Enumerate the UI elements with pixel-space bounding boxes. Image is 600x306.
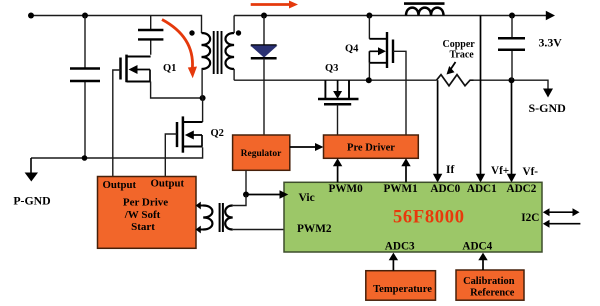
- node junction Vf- cap: [509, 77, 515, 83]
- wire ADC4 arrow: [478, 253, 487, 270]
- node junction diode top: [261, 13, 267, 19]
- capacitor C2 snubber: [138, 16, 163, 55]
- svg-text:56F8000: 56F8000: [393, 207, 465, 227]
- transformer T2 core: [220, 203, 223, 232]
- svg-text:ADC2: ADC2: [507, 183, 537, 195]
- svg-text:Q2: Q2: [211, 128, 224, 139]
- svg-text:Vf+: Vf+: [491, 165, 509, 177]
- ground S-GND arrow: [529, 89, 567, 116]
- svg-text:ADC3: ADC3: [385, 241, 415, 253]
- svg-text:Vic: Vic: [299, 192, 315, 204]
- svg-text:/W Soft: /W Soft: [124, 209, 161, 221]
- svg-text:Copper: Copper: [443, 39, 476, 50]
- temperature block: [366, 271, 436, 301]
- node junction Q4 source: [366, 77, 372, 83]
- svg-text:Output: Output: [151, 178, 185, 190]
- wire regulator to pre driver arrow: [290, 143, 324, 151]
- svg-text:ADC1: ADC1: [467, 183, 497, 195]
- wire I2C bus in: [543, 220, 581, 228]
- wire ADC3 arrow: [389, 253, 398, 271]
- node junction primary bottom: [200, 95, 206, 101]
- inductor L1: [404, 4, 445, 16]
- resistor copper trace: [437, 39, 476, 86]
- svg-text:P-GND: P-GND: [13, 194, 50, 208]
- node phase dot secondary: [236, 30, 241, 35]
- svg-text:Q1: Q1: [163, 63, 176, 74]
- node junction Q4 drain: [366, 13, 372, 19]
- transformer T2 right winding: [225, 206, 233, 230]
- svg-text:Regulator: Regulator: [241, 149, 282, 159]
- wire T2 to PWM2: [233, 229, 289, 231]
- MCU block 56F8000: [284, 182, 542, 252]
- svg-text:Per Drive: Per Drive: [123, 197, 168, 209]
- svg-text:I2C: I2C: [521, 212, 539, 224]
- svg-text:PWM2: PWM2: [297, 223, 332, 235]
- svg-text:Output: Output: [103, 179, 137, 191]
- svg-text:3.3V: 3.3V: [539, 36, 563, 50]
- wire bottom rail right: [474, 80, 549, 89]
- node junction cap C1 bottom: [82, 155, 88, 161]
- wire Vf- sense: [507, 80, 516, 182]
- transistor Q4: [345, 16, 393, 69]
- svg-text:Vf-: Vf-: [523, 166, 539, 178]
- svg-text:S-GND: S-GND: [529, 101, 567, 115]
- svg-text:Start: Start: [131, 221, 155, 233]
- regulator block: [233, 135, 290, 170]
- capacitor C1: [70, 16, 100, 159]
- svg-text:Reference: Reference: [470, 288, 515, 299]
- svg-text:Temperature: Temperature: [373, 284, 432, 295]
- red current arrow top: [251, 1, 298, 9]
- wire Q1 source to primary bottom: [151, 82, 203, 99]
- wire junction to T2: [233, 195, 246, 206]
- wire PWM1 arrow to pre driver: [401, 158, 410, 182]
- wire secondary bottom rail: [234, 79, 436, 81]
- node start terminal: [28, 13, 34, 19]
- capacitor C3 output: [498, 16, 525, 81]
- calibration reference block: [456, 270, 524, 300]
- transformer T1 secondary winding: [225, 16, 234, 81]
- red current arrow curved: [162, 20, 197, 79]
- pre driver block: [324, 135, 419, 158]
- wire Vf+ sense: [476, 16, 485, 183]
- transistor Q1: [121, 55, 177, 83]
- wire Q3 gate to Pre Driver: [337, 105, 339, 136]
- node junction Vic: [243, 192, 249, 198]
- wire If sense: [433, 80, 442, 182]
- node junction output cap top: [509, 13, 515, 19]
- wire Vic arrow: [246, 190, 288, 199]
- wire ground rail P-GND: [31, 147, 203, 158]
- svg-text:PWM1: PWM1: [384, 183, 419, 195]
- svg-text:Trace: Trace: [450, 50, 475, 61]
- wire Q4 gate to Pre Driver: [393, 51, 406, 135]
- transformer T1 primary winding: [202, 33, 211, 98]
- svg-text:Calibration: Calibration: [463, 276, 515, 287]
- svg-text:ADC4: ADC4: [462, 241, 492, 253]
- wire Q4 source to bottom rail: [368, 63, 370, 80]
- svg-text:ADC0: ADC0: [430, 183, 460, 195]
- wire top primary rail: [31, 16, 202, 34]
- node junction cap C1 top: [82, 13, 88, 19]
- svg-text:If: If: [446, 164, 454, 176]
- transformer T2 left winding: [196, 202, 213, 234]
- svg-text:Pre Driver: Pre Driver: [347, 143, 395, 154]
- wire Q1 gate to driver output1: [113, 70, 121, 177]
- svg-text:PWM0: PWM0: [329, 183, 364, 195]
- diode D1: [251, 16, 277, 136]
- svg-text:Q3: Q3: [325, 63, 338, 74]
- node phase dot primary: [189, 30, 194, 35]
- wire PWM0 arrow to pre driver: [333, 158, 342, 182]
- wire I2C bus out: [543, 208, 580, 216]
- driver block Per Drive W Soft Start: [98, 177, 197, 249]
- svg-text:Q4: Q4: [345, 44, 359, 55]
- ground P-GND arrow: [13, 158, 50, 208]
- wire top rail output arrow: [546, 11, 555, 20]
- transistor Q2: [177, 98, 224, 153]
- transistor Q3: [318, 63, 359, 104]
- wire Q2 gate to driver output2: [165, 134, 177, 177]
- transformer T1 core: [214, 31, 222, 74]
- wire regulator to Vic: [245, 170, 247, 194]
- wire secondary top rail: [234, 15, 547, 17]
